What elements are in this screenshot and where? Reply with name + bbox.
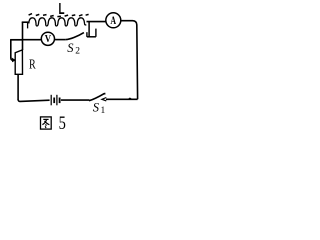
svg-text:5: 5 <box>59 112 66 133</box>
svg-text:1: 1 <box>101 106 106 116</box>
svg-text:A: A <box>110 15 116 28</box>
svg-text:2: 2 <box>75 47 80 57</box>
svg-text:L: L <box>59 0 65 18</box>
svg-text:S: S <box>67 41 74 55</box>
svg-text:S: S <box>93 101 100 115</box>
svg-text:V: V <box>45 34 52 45</box>
svg-text:R: R <box>29 56 36 72</box>
